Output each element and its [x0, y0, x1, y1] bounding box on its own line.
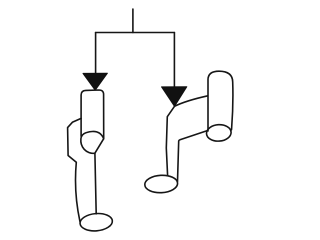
ellipse bottom face of left lower cylinder [79, 212, 113, 232]
diode D1 arrow (left, filled triangle) [83, 73, 107, 90]
cylinder left bottom face (ball ellipse with chord) [81, 131, 104, 153]
cylinder body right upper (rounded top tube) [208, 71, 233, 131]
wire right branch [173, 33, 175, 88]
ellipse bottom face of right lower cylinder [144, 174, 178, 193]
wire horizontal bus [96, 32, 175, 34]
pipe right assembly left edge [166, 106, 174, 175]
diode D2 arrow (right, filled triangle) [162, 87, 187, 107]
cylinder body left upper (rounded top tube) [81, 90, 104, 139]
wire top feed stub [132, 9, 134, 33]
wire left branch [95, 33, 97, 74]
wire lower cylinder right edge (left assembly) [95, 153, 96, 214]
pipe left outline (arm of lower cylinder) [68, 118, 82, 221]
pipe right assembly right edge with elbow to cylinder [178, 131, 208, 182]
pipe top diagonal from diode apex to right cylinder [175, 96, 208, 107]
ellipse bottom face of right upper cylinder [206, 124, 232, 142]
